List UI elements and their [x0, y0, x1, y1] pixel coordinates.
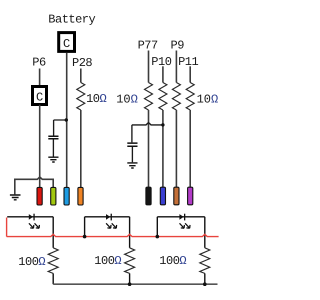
probe blue	[64, 187, 69, 205]
svg-text:P28: P28	[72, 56, 92, 70]
probe red	[37, 187, 42, 205]
LED loop 2 top wire	[85, 216, 130, 218]
resistor P77 10ohm	[145, 83, 153, 110]
svg-text:C: C	[36, 91, 43, 105]
svg-text:100Ω: 100Ω	[18, 255, 45, 269]
probe brown	[174, 187, 179, 205]
svg-text:Battery: Battery	[48, 13, 95, 27]
wire P6 box to red probe	[39, 105, 41, 188]
LED loop 2 right wire	[129, 217, 131, 248]
svg-text:100Ω: 100Ω	[94, 254, 121, 268]
wire R2 to bus	[129, 273, 131, 284]
wire capacitor C2 to ground	[131, 147, 133, 162]
svg-text:C: C	[63, 37, 70, 51]
svg-text:10Ω: 10Ω	[197, 93, 219, 107]
probe black	[146, 187, 151, 205]
wire battery to blue probe	[66, 53, 68, 188]
svg-text:P6: P6	[32, 56, 46, 70]
LED loop 3 left wire	[156, 217, 158, 237]
svg-text:P11: P11	[178, 55, 198, 69]
wire P9 resistor to brown probe	[175, 110, 177, 188]
resistor P11 10ohm	[186, 83, 194, 110]
wire capacitor C1 to ground	[52, 140, 54, 157]
capacitor C2 plates	[127, 143, 137, 146]
wire R3 to bus	[204, 273, 206, 284]
battery box C (voltage source)	[59, 33, 75, 52]
junction dot P10-capacitor	[161, 123, 164, 126]
svg-text:10Ω: 10Ω	[86, 92, 106, 106]
probe orange	[78, 187, 83, 205]
LED D3	[179, 214, 190, 229]
probe purple	[188, 187, 193, 205]
resistor R3 100ohm	[200, 248, 210, 274]
svg-text:P10: P10	[151, 55, 171, 69]
junction dot loop2 on red rail	[83, 235, 87, 239]
LED loop 1 left red wire	[6, 218, 8, 237]
LED D1	[29, 214, 40, 229]
probe blue2	[160, 187, 165, 205]
resistor P9 10ohm	[172, 83, 180, 110]
ground bus	[53, 283, 217, 285]
LED loop 1 right wire	[52, 217, 54, 248]
svg-text:P9: P9	[171, 39, 185, 53]
LED loop 1 top wire	[7, 216, 53, 218]
capacitor C1 wire to battery net	[54, 120, 67, 136]
wire P77	[148, 51, 150, 83]
wire P28 resistor to orange probe	[80, 110, 82, 188]
svg-text:10Ω: 10Ω	[116, 93, 138, 107]
capacitor C2 wire to P10 net (hops over P77 wire)	[132, 123, 163, 143]
wire P6 label to box	[39, 69, 41, 86]
wire P9	[175, 51, 177, 83]
resistor P10 10ohm	[159, 83, 167, 110]
ground left	[10, 195, 21, 200]
wire P10	[162, 66, 164, 82]
wire P11 resistor to purple probe	[189, 110, 191, 188]
junction dot R2 on bus	[128, 282, 132, 286]
wire P11	[189, 66, 191, 82]
capacitor C1 plates	[48, 136, 58, 139]
LED loop 3 top wire	[157, 216, 205, 218]
resistor R2 100ohm	[125, 248, 135, 274]
resistor R P28 10ohm	[77, 83, 85, 110]
probe green	[51, 187, 56, 205]
wire P28 label to resistor	[80, 69, 82, 83]
ground under capacitor C2	[127, 163, 137, 168]
wire ground to green probe (hops over P6 wire)	[15, 177, 53, 194]
LED loop 3 right wire	[204, 217, 206, 248]
junction dot loop3 on red rail	[156, 235, 160, 239]
red rail (hops over resistor wires)	[7, 234, 219, 236]
LED loop 2 left wire	[84, 217, 86, 237]
wire R1 to bus	[52, 273, 54, 284]
resistor R1 100ohm	[48, 248, 58, 274]
svg-text:P77: P77	[138, 39, 158, 53]
wire P10 resistor to blue probe	[162, 110, 164, 188]
junction dot battery-capacitor	[65, 118, 68, 121]
ground under capacitor C1	[48, 157, 58, 162]
LED D2	[106, 214, 117, 229]
wire P77 resistor to black probe	[148, 110, 150, 188]
box C of P6	[33, 87, 47, 105]
junction dot R3 on bus	[203, 282, 207, 286]
svg-text:100Ω: 100Ω	[159, 254, 186, 268]
